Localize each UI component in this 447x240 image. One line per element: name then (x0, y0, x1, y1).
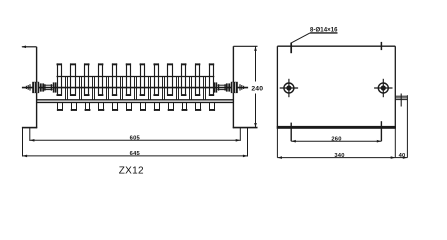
dimension 40 right extension (406, 95, 408, 157)
resistor fin 1 (57, 63, 59, 96)
left foot ledge (22, 127, 37, 129)
resistor fin 11 (195, 63, 197, 96)
dimension 340 line (277, 157, 395, 159)
svg-text:260: 260 (331, 137, 341, 143)
fin bottom stub 11 (195, 102, 197, 111)
hole note underline (310, 32, 338, 34)
dimension 340/40 shared extension (394, 129, 396, 158)
left terminal washers (40, 83, 42, 91)
left foot inner edge / 605 extension (29, 128, 31, 141)
svg-text:605: 605 (130, 136, 141, 142)
narrow fin edge 11 (203, 77, 205, 100)
support channel upper line (37, 99, 234, 101)
svg-text:340: 340 (334, 153, 344, 159)
narrow fin edge 10 (189, 77, 191, 100)
right terminal nut (231, 82, 238, 93)
left terminal thread ribs (25, 86, 27, 89)
svg-text:8-Ø14×16: 8-Ø14×16 (310, 28, 338, 34)
right terminal washers (226, 83, 228, 91)
right side plate (232, 46, 234, 128)
narrow fin edge 1 (65, 77, 67, 100)
left terminal nut (32, 82, 39, 93)
right foot outer edge / 645 extension (247, 128, 249, 157)
hole leader diagonal (291, 33, 310, 43)
dimension 260 right extension (380, 121, 382, 141)
dimension 605 line (30, 139, 241, 141)
right terminal shaft (217, 84, 226, 86)
fin bottom stub 10 (182, 102, 184, 111)
fin bottom stub 4 (98, 102, 100, 111)
resistor fin 8 (154, 63, 156, 96)
dimension 340 left extension (276, 129, 278, 158)
narrow fin edge 9 (176, 77, 178, 100)
resistor fin 9 (167, 63, 169, 96)
dimension 240 line (255, 46, 257, 81)
fin bottom stub 9 (168, 102, 170, 111)
narrow fin edge 3 (92, 77, 94, 100)
narrow fin edge 4 (106, 77, 108, 100)
fin bottom stub 2 (71, 102, 73, 111)
left terminal hole (284, 83, 294, 93)
dimension 40 line (395, 157, 407, 159)
narrow fin edge 8 (162, 77, 164, 100)
svg-text:645: 645 (130, 151, 141, 157)
left side plate (36, 47, 38, 128)
right terminal end washers (214, 82, 216, 92)
upper tie rod line (57, 76, 215, 78)
narrow fin edge 2 (79, 77, 81, 100)
left foot outer edge / 645 extension (22, 128, 24, 157)
top-left leader line with arrow (22, 46, 37, 48)
fin bottom stub 8 (154, 102, 156, 111)
right foot ledge and bottom extension (233, 127, 258, 129)
dimension 260 left extension (290, 123, 292, 142)
left terminal shaft (44, 84, 53, 86)
resistor fin 7 (140, 63, 142, 96)
fin bottom stub 12 (209, 102, 211, 111)
channel protrusion (right view) (395, 95, 407, 97)
dimension 260 line (291, 140, 381, 142)
svg-text:40: 40 (399, 153, 406, 159)
hole leader tick (290, 43, 292, 54)
fin bottom stub 7 (140, 102, 142, 111)
narrow fin edge 5 (120, 77, 122, 100)
narrow fin edge 7 (148, 77, 150, 100)
resistor fin 4 (98, 63, 100, 96)
top-right extension line to 240 dimension (233, 45, 257, 47)
resistor fin 2 (70, 63, 72, 96)
left terminal end washers (53, 82, 55, 92)
fin bottom stub 6 (126, 102, 128, 111)
side plate outline (right view) (276, 46, 278, 129)
resistor fin 3 (84, 63, 86, 96)
svg-text:ZX12: ZX12 (119, 166, 144, 177)
resistor fin 12 (209, 63, 211, 96)
right terminal hole (378, 83, 388, 93)
resistor fin 6 (126, 63, 128, 96)
right foot inner edge / 605 extension (239, 128, 241, 141)
side plate thick bottom edge (277, 126, 396, 129)
narrow fin edge 6 (134, 77, 136, 100)
fin bottom stub 1 (57, 102, 59, 111)
resistor fin 5 (112, 63, 114, 96)
top edge hole tick (right) (380, 42, 382, 50)
svg-text:240: 240 (251, 85, 263, 92)
fin bottom stub 3 (85, 102, 87, 111)
terminal axis center line (22, 87, 248, 89)
fin bottom stub 5 (112, 102, 114, 111)
support channel lower line (37, 101, 234, 103)
resistor fin 10 (181, 63, 183, 96)
right terminal thread ribs (239, 84, 241, 90)
dimension 645 line (23, 155, 248, 157)
